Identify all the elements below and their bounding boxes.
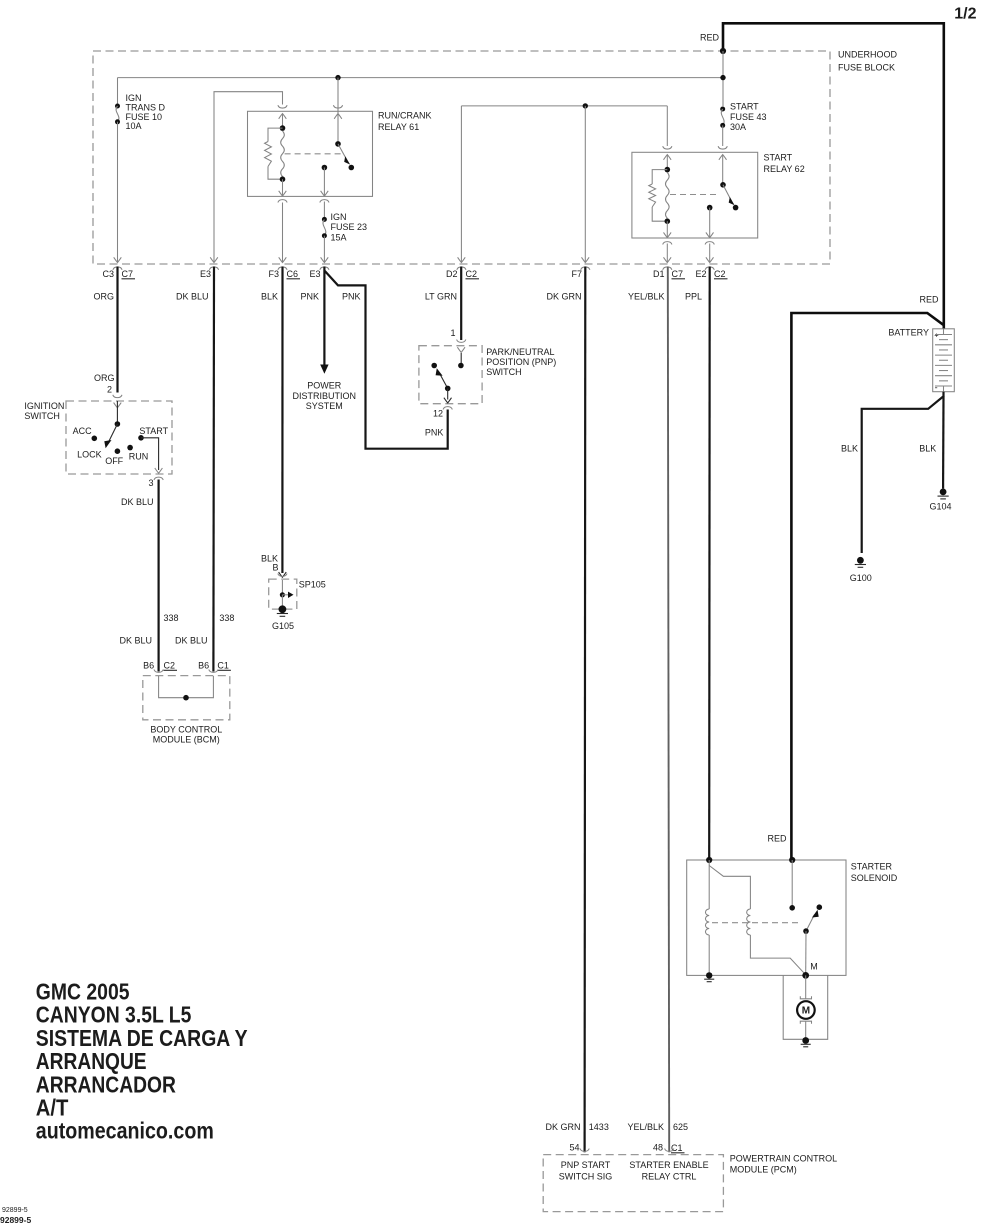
svg-text:F7: F7 — [571, 269, 582, 279]
splice SP105 box — [279, 572, 287, 577]
svg-text:RELAY 62: RELAY 62 — [764, 164, 805, 174]
pin 2 ignition — [113, 395, 122, 398]
node coil1 ground — [706, 972, 712, 978]
svg-text:YEL/BLK: YEL/BLK — [628, 292, 665, 302]
wire motor to ground — [805, 1021, 807, 1040]
svg-text:DK GRN: DK GRN — [546, 292, 581, 302]
contact left relay61 — [322, 165, 328, 171]
svg-text:DK BLU: DK BLU — [121, 497, 154, 507]
BCM box — [143, 676, 230, 720]
wire coil to pin D1 — [666, 221, 668, 238]
SP105 internal — [281, 580, 283, 595]
ignition switch box — [66, 401, 172, 474]
node bus/relay — [335, 75, 340, 80]
actuator dashed link relay62 — [670, 194, 718, 196]
svg-text:CANYON 3.5L L5: CANYON 3.5L L5 — [36, 1002, 192, 1028]
coil winding relay 61 — [281, 131, 285, 177]
ground G105 — [279, 605, 287, 613]
node START — [138, 435, 144, 441]
starter solenoid box — [687, 860, 846, 975]
PNP pin1 wire — [460, 353, 462, 366]
battery — [933, 329, 955, 392]
svg-text:SYSTEM: SYSTEM — [306, 401, 343, 411]
svg-text:YEL/BLK: YEL/BLK — [627, 1122, 664, 1132]
wire START to pin 3 — [141, 438, 159, 470]
node PPL entry — [706, 857, 712, 863]
fuse START FUSE 43 30A — [720, 107, 725, 112]
node coil top relay62 — [665, 167, 671, 173]
svg-text:MODULE (BCM): MODULE (BCM) — [153, 735, 220, 745]
BCM internal link — [159, 676, 214, 698]
node bus/red — [720, 75, 725, 80]
underhood fuse block dashed box — [93, 51, 830, 264]
svg-text:A/T: A/T — [36, 1095, 69, 1121]
svg-text:C6: C6 — [287, 269, 299, 279]
switch blade relay62 — [723, 185, 732, 201]
node RED entry — [789, 857, 795, 863]
svg-text:C7: C7 — [122, 269, 134, 279]
svg-text:C1: C1 — [671, 1143, 683, 1153]
svg-text:E3: E3 — [200, 269, 211, 279]
svg-text:ARRANQUE: ARRANQUE — [36, 1048, 147, 1074]
wire coil bottom to pin — [282, 179, 284, 196]
solenoid coil 2 branch — [709, 866, 750, 910]
svg-text:48: 48 — [653, 1143, 663, 1153]
contact left relay62 — [707, 205, 713, 211]
contact right relay61 — [349, 165, 355, 171]
pin coil top relay62 — [663, 146, 672, 149]
svg-text:E3: E3 — [309, 269, 320, 279]
coil winding relay62 — [666, 173, 670, 219]
svg-text:RED: RED — [767, 834, 787, 844]
wire BLK from F3 to SP105 — [281, 267, 283, 574]
svg-text:LOCK: LOCK — [77, 450, 102, 460]
svg-text:FUSE 43: FUSE 43 — [730, 112, 767, 122]
svg-text:GMC 2005: GMC 2005 — [36, 979, 130, 1005]
svg-text:PNP START: PNP START — [561, 1160, 611, 1170]
BCM pin C2 — [154, 670, 163, 673]
wire to M terminal — [805, 931, 807, 975]
wire LT GRN — [460, 267, 462, 341]
svg-text:RED: RED — [919, 295, 939, 305]
wire DK BLU from E3 to BCM — [212, 267, 215, 672]
wire M to motor — [805, 975, 807, 999]
pin switch top relay62 — [718, 146, 727, 149]
svg-text:C1: C1 — [217, 661, 229, 671]
svg-text:D2: D2 — [446, 269, 458, 279]
PNP blade — [440, 373, 448, 388]
svg-text:G105: G105 — [272, 621, 294, 631]
wire PNK to power distribution — [323, 267, 325, 367]
svg-text:3: 3 — [148, 478, 153, 488]
svg-text:RUN/CRANK: RUN/CRANK — [378, 111, 432, 121]
node RED at fuse block edge — [720, 48, 726, 54]
node coil top — [280, 125, 286, 131]
svg-text:D1: D1 — [653, 269, 665, 279]
node ACC — [92, 436, 98, 442]
resistor relay62 — [652, 170, 667, 184]
svg-text:SWITCH SIG: SWITCH SIG — [559, 1172, 613, 1182]
ignition blade to LOCK — [108, 424, 117, 443]
solenoid coil 1 — [708, 860, 710, 909]
svg-text:OFF: OFF — [105, 456, 123, 466]
svg-text:-: - — [935, 383, 938, 393]
node RUN — [127, 445, 133, 451]
svg-text:DK BLU: DK BLU — [176, 292, 209, 302]
svg-text:2: 2 — [107, 385, 112, 395]
wire PPL to solenoid — [708, 267, 711, 861]
svg-text:BATTERY: BATTERY — [888, 328, 929, 338]
svg-text:PPL: PPL — [685, 292, 702, 302]
svg-text:UNDERHOOD: UNDERHOOD — [838, 50, 898, 60]
starter motor pocket — [783, 975, 828, 1039]
fuse IGN FUSE 23 15A — [322, 217, 327, 222]
svg-text:1433: 1433 — [589, 1122, 609, 1132]
svg-text:C2: C2 — [466, 269, 478, 279]
svg-text:54: 54 — [569, 1143, 579, 1153]
wire RED battery to solenoid — [791, 313, 943, 860]
svg-text:STARTER: STARTER — [851, 862, 893, 872]
relay RUN/CRANK RELAY 61 box — [248, 111, 373, 196]
ground starter motor — [802, 1037, 809, 1044]
wire coil pin relay62 — [666, 155, 668, 170]
svg-text:ORG: ORG — [94, 373, 115, 383]
svg-text:IGN: IGN — [331, 212, 347, 222]
connector exits at fuse block bottom edge — [114, 257, 122, 262]
svg-text:BLK: BLK — [261, 292, 278, 302]
svg-text:F3: F3 — [268, 269, 279, 279]
fuse IGN TRANS D FUSE 10 10A — [117, 78, 119, 104]
svg-text:START: START — [139, 426, 168, 436]
wire ORG — [116, 267, 118, 393]
wire DK BLU from ignition to BCM — [158, 480, 160, 672]
svg-text:ORG: ORG — [93, 292, 114, 302]
svg-text:PNK: PNK — [425, 428, 444, 438]
node PNP left contact — [431, 363, 437, 369]
svg-text:C2: C2 — [164, 661, 176, 671]
svg-text:DK BLU: DK BLU — [119, 636, 152, 646]
node switch common — [335, 141, 341, 147]
node F7 tap — [583, 103, 588, 108]
node switch common relay62 — [720, 182, 726, 188]
svg-text:12: 12 — [433, 409, 443, 419]
svg-text:RUN: RUN — [129, 452, 149, 462]
resistor in relay 61 — [268, 128, 283, 141]
svg-text:automecanico.com: automecanico.com — [36, 1118, 214, 1144]
contact right relay62 — [733, 205, 739, 211]
svg-text:POSITION (PNP): POSITION (PNP) — [486, 357, 556, 367]
node PNP right contact — [458, 363, 464, 369]
pin coil top — [278, 105, 287, 108]
node M terminal — [802, 972, 809, 979]
svg-text:B6: B6 — [143, 661, 154, 671]
svg-text:START: START — [764, 153, 793, 163]
motor brushes top — [800, 996, 811, 999]
svg-text:C3: C3 — [102, 269, 114, 279]
svg-text:SWITCH: SWITCH — [24, 411, 60, 421]
svg-text:C2: C2 — [714, 269, 726, 279]
pin switch top — [333, 105, 342, 108]
svg-text:92899-5: 92899-5 — [0, 1215, 31, 1224]
svg-text:STARTER ENABLE: STARTER ENABLE — [629, 1160, 708, 1170]
ground G104 — [940, 489, 947, 496]
svg-text:PNK: PNK — [342, 292, 361, 302]
wire coil feed y106 — [461, 105, 667, 107]
starter motor M — [797, 1001, 815, 1019]
svg-text:IGNITION: IGNITION — [24, 401, 64, 411]
svg-text:ACC: ACC — [73, 426, 93, 436]
motor brushes bottom — [800, 1021, 811, 1024]
svg-text:LT GRN: LT GRN — [425, 292, 457, 302]
wire RED feed top — [723, 23, 944, 329]
svg-text:M: M — [802, 1006, 810, 1017]
node PNP pivot — [445, 386, 451, 392]
svg-text:RED: RED — [700, 33, 720, 43]
svg-text:625: 625 — [673, 1122, 688, 1132]
wire contact to fuse23 — [323, 168, 325, 197]
svg-text:MODULE (PCM): MODULE (PCM) — [730, 1165, 797, 1175]
svg-text:1/2: 1/2 — [954, 6, 976, 23]
svg-text:DK GRN: DK GRN — [545, 1122, 580, 1132]
svg-text:START: START — [730, 102, 759, 112]
wire switch pin relay62 — [722, 155, 724, 185]
switch blade relay61 — [338, 144, 347, 160]
svg-text:M: M — [810, 962, 818, 972]
solenoid switch — [791, 860, 793, 908]
wire switch pin from bus — [337, 78, 339, 144]
svg-text:BLK: BLK — [919, 444, 936, 454]
svg-text:15A: 15A — [331, 232, 347, 242]
ignition pivot wire — [116, 401, 118, 424]
svg-text:POWER: POWER — [307, 381, 342, 391]
wire contact to pin E2 — [709, 208, 711, 238]
svg-text:SOLENOID: SOLENOID — [851, 873, 898, 883]
svg-text:E2: E2 — [695, 269, 706, 279]
svg-text:PNK: PNK — [300, 292, 319, 302]
node OFF — [115, 448, 121, 454]
solenoid actuator dashed — [712, 922, 802, 924]
svg-text:RELAY CTRL: RELAY CTRL — [642, 1172, 697, 1182]
solenoid blade — [806, 915, 815, 932]
wire BLK battery negative — [862, 392, 944, 553]
svg-text:10A: 10A — [126, 121, 142, 131]
svg-text:B6: B6 — [198, 661, 209, 671]
PCM box — [580, 1149, 589, 1152]
wire coil pin to node — [282, 114, 284, 129]
wire E3 riser — [214, 92, 283, 262]
svg-text:FUSE BLOCK: FUSE BLOCK — [838, 63, 895, 73]
node coil bottom — [280, 176, 286, 182]
svg-text:BODY CONTROL: BODY CONTROL — [150, 725, 222, 735]
node coil bottom relay62 — [665, 218, 671, 224]
svg-text:338: 338 — [219, 613, 234, 623]
relay START RELAY 62 box — [632, 152, 758, 238]
wire PNK branch to PNP switch — [324, 271, 447, 449]
svg-text:SWITCH: SWITCH — [486, 367, 522, 377]
PNP pin12 wire — [447, 388, 449, 399]
svg-text:G104: G104 — [929, 502, 951, 512]
svg-text:1: 1 — [450, 328, 455, 338]
svg-text:SP105: SP105 — [299, 580, 326, 590]
svg-text:B: B — [272, 563, 278, 573]
ground G100 — [857, 557, 864, 564]
actuator dashed link relay61 — [285, 153, 344, 155]
svg-text:PARK/NEUTRAL: PARK/NEUTRAL — [486, 347, 554, 357]
wire RED drop to start fuse — [722, 51, 724, 106]
svg-text:C7: C7 — [672, 269, 684, 279]
BCM pin C1 — [209, 670, 218, 673]
svg-text:DK BLU: DK BLU — [175, 636, 208, 646]
svg-text:338: 338 — [164, 613, 179, 623]
svg-text:92899-5: 92899-5 — [2, 1207, 28, 1214]
svg-text:POWERTRAIN CONTROL: POWERTRAIN CONTROL — [730, 1154, 837, 1164]
svg-text:SISTEMA DE CARGA Y: SISTEMA DE CARGA Y — [36, 1025, 248, 1051]
PNP switch box — [457, 340, 466, 343]
svg-text:DISTRIBUTION: DISTRIBUTION — [293, 391, 357, 401]
wire bus y78 inside fuse block — [118, 77, 724, 79]
wire YEL/BLK to PCM — [668, 267, 669, 1153]
svg-text:BLK: BLK — [841, 444, 858, 454]
svg-text:G100: G100 — [850, 573, 872, 583]
svg-text:30A: 30A — [730, 122, 746, 132]
svg-text:ARRANCADOR: ARRANCADOR — [36, 1071, 176, 1097]
svg-text:RELAY 61: RELAY 61 — [378, 122, 419, 132]
node ignition pivot — [115, 421, 121, 427]
wire DK GRN to PCM — [583, 267, 586, 1153]
svg-text:FUSE 23: FUSE 23 — [331, 222, 368, 232]
node BCM link — [183, 695, 189, 701]
